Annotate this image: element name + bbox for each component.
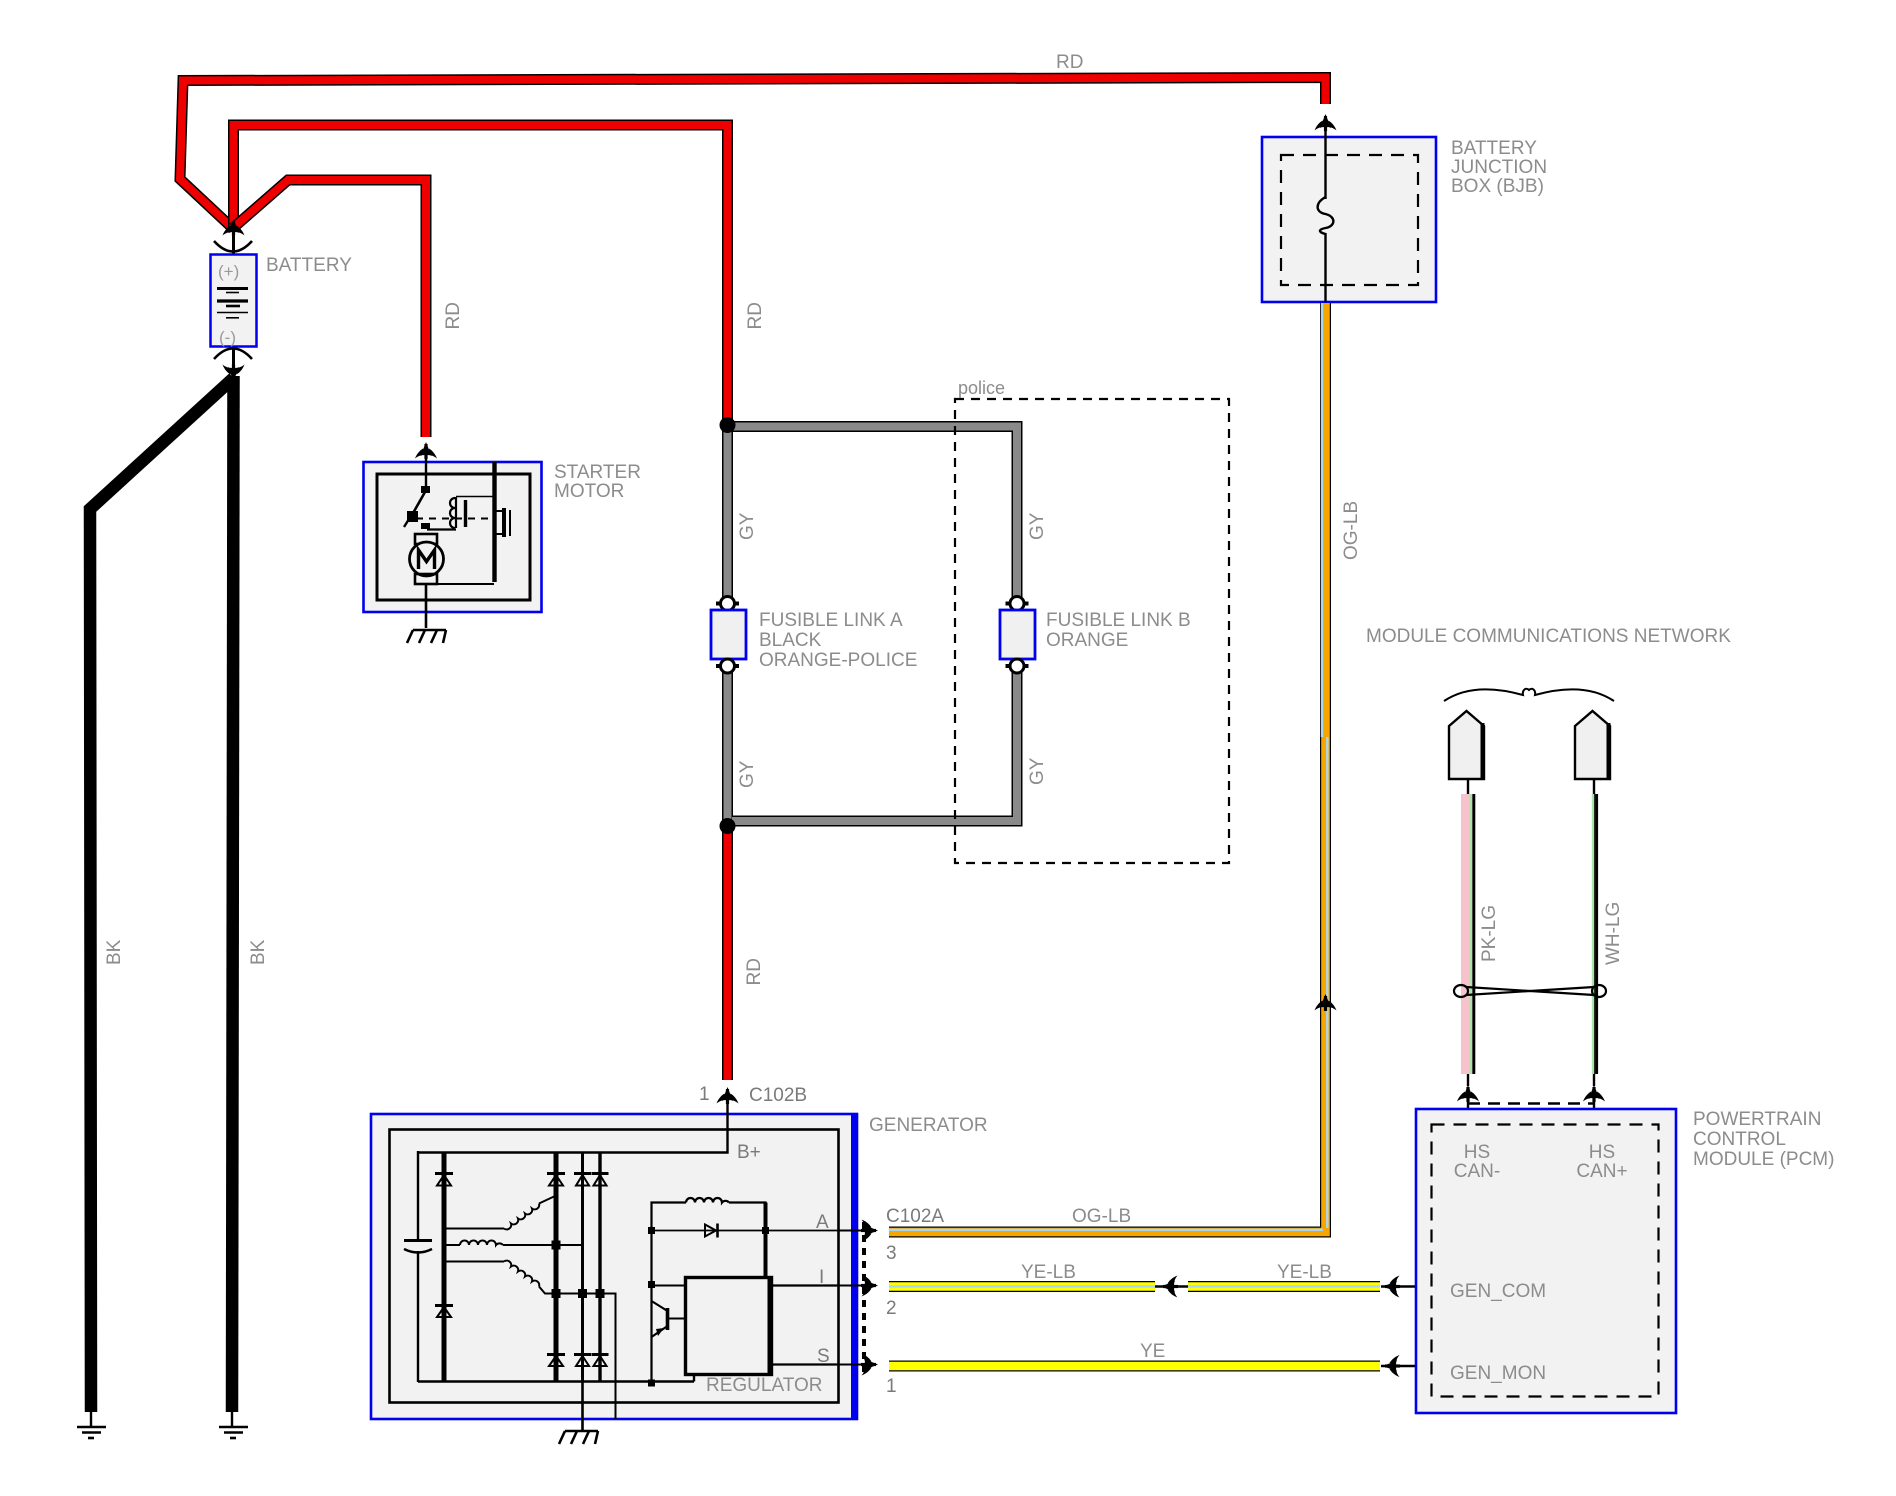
battery BOX [211,255,257,347]
wire GY fusible link A to junction [722,672,733,826]
wire RD battery to generator feed (middle run) [234,125,728,424]
svg-text:PK-LG: PK-LG [1479,905,1500,962]
capacitor C [404,1241,432,1253]
generator inner box [390,1130,839,1403]
battery cell plates [217,289,248,318]
svg-text:JUNCTION: JUNCTION [1451,157,1547,178]
generator box thick right border [851,1113,858,1420]
svg-text:BK: BK [104,939,125,965]
wire BK battery negative to right ground [232,376,234,1412]
svg-text:MODULE COMMUNICATIONS NETWORK: MODULE COMMUNICATIONS NETWORK [1366,626,1731,647]
YE-LB inline connector arrow [1161,1276,1178,1298]
wire GY police branch (top + right + bottom) [732,427,1017,822]
svg-text:2: 2 [886,1298,897,1319]
PCM box [1416,1109,1676,1413]
police dashed box [955,399,1229,863]
PCM CAN+ arrow [1583,1085,1605,1102]
svg-text:GY: GY [737,760,758,788]
starter moving contact [495,508,510,537]
CAN- network connector [1449,711,1484,779]
svg-text:OG-LB: OG-LB [1341,501,1362,560]
wire GY junction to fusible link A [722,425,733,597]
svg-text:CONTROL: CONTROL [1693,1129,1786,1150]
junction ticks on field loop [648,1227,655,1234]
starter motor M [410,534,495,628]
generator ground lead [581,1382,584,1431]
svg-text:GY: GY [1027,512,1048,540]
diode D4 (bar2 bottom) [547,1355,565,1367]
ground G200 (right) [219,1408,248,1438]
wire BK battery negative diagonal to left ground [90,378,234,1412]
stub I to connector [838,1285,875,1287]
wire YE-LB left segment [889,1281,1155,1292]
stub A to connector [838,1230,875,1232]
starter feed wire into switch [425,452,427,489]
svg-text:WH-LG: WH-LG [1603,902,1624,965]
starter ground [407,630,446,643]
svg-text:3: 3 [886,1243,897,1264]
battery connector arc bottom [214,349,252,360]
svg-text:REGULATOR: REGULATOR [706,1375,823,1396]
generator ground [559,1431,598,1444]
wire YE [889,1361,1380,1372]
solenoid linkage dashed line [416,518,492,520]
regulator field loop [652,1198,766,1383]
svg-text:(-): (-) [219,328,236,347]
BJB box [1262,137,1436,302]
PCM dashed box [1432,1125,1659,1397]
svg-text:GEN_MON: GEN_MON [1450,1363,1546,1384]
MCN brace [1444,689,1614,701]
C102A dashed line [862,1222,866,1372]
regulator box [686,1278,772,1375]
wire OG-LB [889,303,1327,1232]
stub S to connector [838,1364,875,1366]
junction dot top [720,417,736,433]
BJB dashed box [1281,155,1418,285]
starter solenoid coil [427,497,493,530]
svg-text:RD: RD [744,958,765,985]
wire RD fusible link to generator B+ [722,828,733,1080]
stator winding phase 1 (top) [446,1197,554,1230]
fusible link A [711,597,746,674]
svg-text:HS: HS [1589,1142,1615,1163]
svg-text:BLACK: BLACK [759,630,822,651]
fusible link B [1000,597,1035,674]
arrow S [861,1354,878,1376]
YE-LB inline connector line [1155,1285,1188,1288]
stator winding phase 2 (middle) [446,1241,583,1246]
rectifier bar 3 [581,1153,584,1383]
svg-text:ORANGE-POLICE: ORANGE-POLICE [759,650,917,671]
wire WH-LG [1593,779,1597,1086]
svg-text:FUSIBLE LINK B: FUSIBLE LINK B [1046,610,1191,631]
svg-text:ORANGE: ORANGE [1046,630,1128,651]
svg-text:(+): (+) [218,262,239,281]
wire RD battery to BJB (top run) [180,78,1326,230]
stator winding phase 3 (bottom) [446,1261,616,1419]
YE-LB PCM connector arrow [1383,1276,1400,1298]
field diode row [652,1230,839,1232]
BJB connector arrow [1315,114,1337,131]
rectifier bar 4 [598,1153,601,1383]
svg-text:GY: GY [737,512,758,540]
CAN leads into PCM [1467,1092,1469,1125]
field to regulator tie [652,1285,687,1287]
wire RD battery to starter motor [233,180,426,437]
svg-text:RD: RD [443,302,464,329]
starter motor box [364,462,542,612]
svg-text:YE-LB: YE-LB [1021,1262,1076,1283]
svg-text:1: 1 [699,1084,710,1105]
diode D1 (bar1 top) [435,1174,453,1186]
YE stub into PCM [1381,1365,1431,1368]
YE-LB stub into PCM [1381,1285,1431,1288]
twisted pair symbol [1454,985,1606,997]
svg-text:MODULE (PCM): MODULE (PCM) [1693,1149,1834,1170]
svg-text:POWERTRAIN: POWERTRAIN [1693,1109,1821,1130]
PCM CAN- arrow [1457,1085,1479,1102]
CAN+ network connector [1575,711,1610,779]
S line [772,1363,838,1365]
svg-text:S: S [817,1346,830,1367]
junction dot bottom [720,818,736,834]
generator C102B connector arrow [717,1087,739,1104]
svg-text:BATTERY: BATTERY [1451,138,1537,159]
dashed tie between CAN arrows [1468,1102,1594,1105]
rectifier bar 1 [442,1153,447,1383]
rectifier left leg [417,1151,419,1240]
battery connector arrow bottom [223,364,245,381]
svg-text:MOTOR: MOTOR [554,481,624,502]
svg-text:police: police [958,378,1005,398]
battery connector arc top [214,241,252,252]
svg-text:YE-LB: YE-LB [1277,1262,1332,1283]
diode D6 (bar3 bottom) [574,1355,591,1367]
field diode [705,1224,718,1238]
diode D7 (bar4 top) [592,1174,609,1186]
starter connector arrow [415,442,437,459]
transistor Q1 [652,1301,687,1337]
OG-LB inline arrow [1315,994,1337,1011]
svg-text:RD: RD [1056,52,1083,73]
rectifier bar 2 [554,1153,559,1383]
svg-text:A: A [816,1212,829,1233]
wire YE-LB right segment [1188,1281,1380,1292]
arrow A [861,1220,878,1242]
ground G100 (left) [77,1408,106,1438]
svg-text:OG-LB: OG-LB [1072,1206,1131,1227]
YE PCM connector arrow [1383,1355,1400,1377]
svg-text:I: I [819,1267,824,1288]
regulator bottom tie [693,1375,695,1382]
battery connector arrow top [223,219,245,236]
svg-text:FUSIBLE LINK A: FUSIBLE LINK A [759,610,903,631]
generator box [371,1114,857,1419]
svg-text:GEN_COM: GEN_COM [1450,1281,1546,1302]
svg-text:RD: RD [745,302,766,329]
arrow I [861,1275,878,1297]
svg-text:CAN+: CAN+ [1576,1161,1627,1182]
starter solenoid switch [404,486,430,529]
diode D5 (bar3 top) [574,1174,591,1186]
I line [772,1284,838,1286]
svg-text:GENERATOR: GENERATOR [869,1115,988,1136]
wire PK-LG [1466,779,1474,1086]
svg-text:BATTERY: BATTERY [266,255,352,276]
svg-text:STARTER: STARTER [554,462,641,483]
svg-text:1: 1 [886,1376,897,1397]
diode D8 (bar4 bottom) [592,1355,609,1367]
starter contact bar [492,462,496,582]
diode D2 (bar1 mid) [435,1306,453,1318]
svg-text:YE: YE [1140,1341,1165,1362]
BJB fuse element [1318,124,1334,302]
B+ feed line [418,1098,728,1153]
svg-text:BK: BK [248,939,269,965]
svg-text:C102B: C102B [749,1085,807,1106]
svg-text:CAN-: CAN- [1454,1161,1500,1182]
svg-text:HS: HS [1464,1142,1490,1163]
svg-text:B+: B+ [737,1142,761,1163]
svg-text:BOX (BJB): BOX (BJB) [1451,176,1544,197]
svg-text:GY: GY [1027,757,1048,785]
svg-text:C102A: C102A [886,1206,944,1227]
starter inner box [377,474,530,600]
rectifier bottom bus [418,1380,694,1382]
diode D3 (bar2 top) [547,1174,565,1186]
